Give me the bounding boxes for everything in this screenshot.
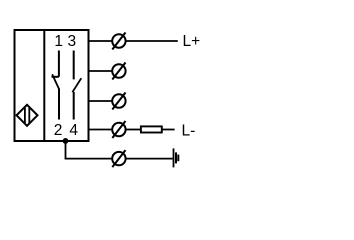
svg-text:1: 1 bbox=[54, 33, 63, 50]
svg-text:3: 3 bbox=[67, 33, 76, 50]
svg-text:4: 4 bbox=[69, 122, 78, 139]
svg-text:L+: L+ bbox=[183, 33, 201, 50]
svg-text:2: 2 bbox=[54, 122, 63, 139]
svg-text:L-: L- bbox=[182, 122, 196, 139]
